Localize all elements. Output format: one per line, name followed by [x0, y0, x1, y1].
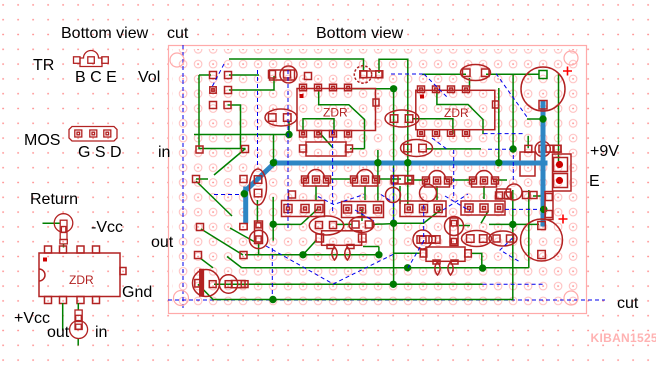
mounting hole top-left	[170, 53, 184, 67]
svg-text:TR: TR	[33, 57, 54, 74]
mounting hole bottom-left	[174, 291, 189, 306]
outline dash right diag	[496, 74, 527, 118]
outline dash diag mid	[432, 138, 448, 150]
pad block under bus	[520, 152, 535, 176]
svg-text:out: out	[47, 324, 70, 341]
op-amp U2 pin1 mark	[420, 95, 424, 99]
mounting hole top-right	[564, 51, 578, 65]
outline dash v3	[332, 130, 334, 211]
wire jumper row1b	[229, 74, 259, 76]
wire left ladder vertical	[199, 75, 246, 149]
wire diag left2b	[201, 229, 243, 255]
junction dot right v4 end	[495, 159, 502, 166]
capacitor C1 top pad (green)	[539, 71, 547, 79]
transistor Q9 small ellipse	[309, 216, 343, 235]
wire ra1 diag	[301, 209, 318, 224]
diode D1 bar	[200, 270, 204, 297]
junction dot on bus	[374, 159, 381, 166]
resistor R1 top-right ellipse	[461, 65, 491, 81]
wire ic2 inner1	[437, 91, 483, 135]
cut line left vertical	[182, 45, 184, 310]
transistor Q12 ellipse	[489, 231, 517, 246]
svg-text:G S D: G S D	[78, 144, 122, 161]
wire bottom h1 tap	[378, 247, 380, 255]
wire bus tap right	[527, 118, 543, 120]
wire long vertical A	[393, 89, 395, 223]
op-amp U1 pin1 mark	[300, 94, 304, 98]
outline dash v7	[271, 248, 273, 296]
pad	[197, 224, 204, 231]
wire L2 left feed	[394, 252, 421, 254]
op-amp U2 side tab	[493, 101, 499, 108]
resistor array RA4	[461, 201, 505, 215]
trimmer VR2	[450, 218, 458, 246]
op-amp U1 pins bottom	[300, 131, 352, 138]
outline dash X1	[443, 194, 468, 210]
capacitor C3 pads top-left	[270, 70, 295, 80]
wire block top feed	[527, 136, 529, 148]
pad	[242, 146, 249, 153]
legend trimmer wire	[43, 222, 61, 224]
outline dash diag mid2	[355, 210, 374, 221]
solder circle a	[386, 188, 401, 203]
svg-text:in: in	[158, 144, 170, 161]
outline dash diag ic2	[424, 74, 447, 97]
resistor array RA3	[400, 201, 446, 217]
wire right v1b	[512, 190, 514, 224]
transistor Q11 ellipse	[462, 231, 492, 247]
junction dot	[390, 220, 397, 227]
wire power bus horizontal (thick)	[275, 161, 545, 166]
capacitor C1 electrolytic top	[521, 67, 565, 111]
wire right v3	[528, 190, 530, 268]
junction dot L2	[479, 264, 486, 271]
wire q9q10 link	[337, 223, 353, 225]
wire L2 right feed	[471, 253, 482, 268]
wire tr row link3	[409, 179, 425, 181]
wire diode drop	[198, 284, 213, 299]
legend in jack	[70, 310, 88, 339]
svg-text:in: in	[95, 324, 107, 341]
pad	[289, 191, 296, 198]
connector J1 pin2	[556, 177, 563, 184]
wire ic1 inner	[319, 91, 365, 149]
jumper pads left top	[210, 72, 217, 79]
wire tr row link5	[496, 179, 507, 181]
svg-text:Return: Return	[30, 191, 78, 208]
capacitor C4 pads top-mid	[361, 71, 383, 78]
pad	[196, 146, 203, 153]
pad	[195, 252, 202, 259]
svg-text:E: E	[589, 173, 600, 190]
svg-text:+9V: +9V	[590, 143, 619, 160]
outline dash diag bot	[408, 241, 424, 268]
wire vr drop2	[258, 243, 260, 255]
transistor Q7 dome	[472, 171, 497, 187]
wire ellipse pin drop	[469, 78, 471, 88]
resistor R3 horizontal	[306, 142, 346, 156]
wire jumper column	[228, 105, 241, 149]
transistor Q1 ellipse	[265, 109, 297, 126]
transistor Q2 ellipse	[385, 110, 419, 127]
legend TR symbol	[74, 51, 109, 67]
wire q feed	[273, 135, 275, 161]
wire tr2 drop	[364, 186, 366, 200]
wire power bus diagonal (thick)	[246, 162, 276, 191]
outline dash v1	[257, 70, 259, 168]
outline dash top h	[391, 73, 424, 75]
outline dash v6	[453, 150, 455, 199]
inductor L2 leads	[435, 262, 440, 275]
connector J1 pin1	[556, 161, 563, 168]
transistor Q3 dome	[304, 170, 329, 187]
wire diag left1	[196, 181, 232, 216]
svg-text:MOS: MOS	[24, 132, 60, 149]
resistor R6 vertical right	[545, 192, 553, 220]
wire bottom h4	[212, 299, 514, 301]
legend IC U3 body	[39, 246, 126, 304]
wire ladder diag	[214, 149, 246, 176]
wire tr1 drop	[315, 186, 317, 200]
op-amp U2 body	[416, 90, 495, 129]
op-amp U2 pins bottom	[418, 130, 470, 137]
wire cap right drop	[558, 74, 560, 161]
outline dash diag mid3	[381, 195, 391, 202]
wire right v1	[512, 74, 514, 149]
wire ic1 feed	[194, 134, 289, 136]
legend trimmer VR	[54, 214, 73, 244]
wire ellipse left feed	[422, 73, 466, 75]
wire r mid diag	[318, 131, 333, 148]
pad	[305, 73, 312, 80]
wire bottom h2	[242, 267, 529, 269]
wire assembly link2	[363, 246, 379, 248]
diode D1 circle	[193, 270, 220, 297]
wire bottom h3	[214, 283, 483, 285]
legend MOS symbol	[69, 127, 117, 142]
capacitor C5 small rect	[413, 230, 432, 249]
solder circle b	[420, 185, 437, 202]
wire tr5 drop	[483, 186, 485, 199]
op-amp U2 pins top	[418, 86, 470, 93]
wire power bus left vertical (thick)	[243, 189, 248, 221]
outline dash right h2	[488, 148, 511, 150]
board outline	[169, 46, 587, 314]
wire tr row link1	[330, 178, 351, 180]
inductor L1 leads	[332, 247, 337, 260]
transistor Q10 ellipse	[349, 217, 374, 233]
outline dash right h1	[484, 133, 525, 135]
svg-text:Bottom view: Bottom view	[61, 25, 149, 42]
wire ellipse link	[486, 73, 539, 75]
svg-text:out: out	[151, 234, 174, 251]
svg-text:-Vcc: -Vcc	[91, 219, 123, 236]
legend in wire b	[77, 339, 79, 346]
resistor array RA2	[342, 202, 384, 218]
capacitor C2 polarity mark	[559, 215, 568, 224]
outline dash v5	[423, 205, 425, 241]
wire r mid out	[350, 148, 365, 150]
wire tr4 drop	[436, 186, 438, 200]
pad	[240, 176, 247, 183]
outline dash v8	[512, 155, 514, 182]
outline dash h mid right	[505, 208, 541, 210]
junction dot	[299, 251, 306, 258]
wire ic link	[350, 88, 394, 90]
outline dash v4	[392, 168, 394, 220]
svg-text:ZDR: ZDR	[444, 106, 469, 120]
junction dot bus elbow	[241, 190, 248, 197]
wire right v4	[498, 88, 500, 163]
junction dot	[270, 159, 277, 166]
wire q1 stub	[288, 121, 290, 135]
svg-text:KIBAN1525: KIBAN1525	[591, 331, 656, 345]
resistor R2 mid ellipse	[401, 140, 433, 157]
legend IC U3 pin1 mark	[43, 258, 47, 262]
svg-text:Bottom view: Bottom view	[316, 25, 404, 42]
trimmer VR1	[255, 221, 263, 244]
svg-text:B C E: B C E	[75, 69, 117, 86]
inductor L2 body	[426, 247, 465, 261]
wire long vertical A low	[393, 223, 395, 284]
junction dot cap feed	[539, 115, 546, 122]
wire top bus	[229, 59, 364, 71]
junction dot right v1 end	[509, 145, 516, 152]
junction dot	[390, 85, 397, 92]
wire bus tap	[377, 150, 379, 201]
transistor Q8 circle	[506, 184, 522, 200]
pad	[240, 224, 247, 230]
wire r2 out	[426, 148, 481, 150]
resistor R8 under bus	[539, 145, 561, 152]
svg-text:ZDR: ZDR	[323, 106, 348, 120]
op-amp U1 side tab	[373, 99, 379, 106]
legend trimmer drop	[63, 244, 65, 248]
pin holes in arrays	[287, 207, 501, 211]
mounting hole bottom-right	[564, 291, 578, 305]
outline dash h3 continuation	[483, 283, 543, 285]
wire diag left3	[227, 257, 242, 269]
svg-text:+Vcc: +Vcc	[14, 310, 50, 327]
wire vr drop	[256, 200, 258, 222]
outline dash h mid left	[214, 194, 240, 196]
transistor Q6 dome	[425, 171, 450, 187]
svg-text:ZDR: ZDR	[69, 273, 94, 287]
wire bottom h1	[245, 254, 379, 256]
svg-text:cut: cut	[617, 295, 639, 312]
outline dash X2	[445, 196, 470, 211]
junction dot	[509, 221, 516, 228]
wire assembly link	[273, 223, 301, 225]
outline dash big V	[266, 246, 393, 284]
legend in wire	[77, 303, 79, 311]
outline dash V mid	[318, 195, 364, 205]
junction dot on bus right	[540, 206, 547, 213]
wire jumper row2	[229, 76, 274, 90]
op-amp U1 body	[297, 89, 376, 131]
wire between ICs	[379, 59, 408, 204]
capacitor C1 polarity mark	[563, 67, 572, 76]
wire mid low tap	[272, 197, 274, 241]
wire L1 left diag	[303, 240, 317, 255]
wire tr row link2	[379, 178, 401, 180]
wire right mid bus	[489, 223, 539, 225]
junction dot	[374, 159, 381, 166]
outline dash diag tl	[212, 64, 224, 87]
junction dot	[285, 131, 292, 138]
cut line bottom horizontal	[168, 299, 605, 301]
junction dot	[404, 264, 411, 271]
transistor Q4 dome	[353, 170, 378, 187]
resistor R7 row	[392, 176, 414, 185]
junction dot	[270, 221, 277, 228]
op-amp U1 pins top	[300, 84, 352, 91]
wire pad link left	[196, 178, 208, 180]
wire block2 diag	[481, 210, 489, 223]
wire power bus right vertical (thick)	[541, 103, 546, 224]
diode D1 pad	[195, 280, 203, 288]
wire block1 out	[396, 210, 441, 224]
legend out wire	[62, 303, 64, 331]
svg-text:Vol: Vol	[138, 69, 160, 86]
junction dot on bus	[270, 159, 277, 166]
pad	[193, 176, 200, 183]
pads right of Q8	[523, 192, 530, 199]
wire ra3 drop	[399, 186, 401, 204]
resistor array RA1	[282, 201, 325, 217]
pad	[240, 252, 247, 259]
junction dot	[390, 281, 397, 288]
svg-text:Gnd: Gnd	[122, 284, 152, 301]
junction dot on bus	[404, 159, 411, 166]
junction dot	[269, 296, 276, 303]
wire ic1 inner b	[303, 119, 334, 131]
junction dot	[375, 251, 382, 258]
wire pot2 link	[459, 225, 470, 227]
wire ic2 inner2	[412, 119, 453, 134]
wire jumper row1	[199, 74, 211, 76]
wire assembly link b	[372, 223, 394, 226]
wire vr diag	[230, 228, 254, 242]
outline dash diag br	[500, 238, 520, 262]
junction dot	[404, 159, 411, 166]
wire tr row link4	[451, 179, 471, 181]
wire diag left2	[200, 258, 213, 268]
inductor L1 body	[322, 231, 362, 246]
connector J1	[553, 154, 572, 191]
resistor R4 vertical ellipse	[250, 169, 267, 205]
wire conn link	[533, 195, 545, 197]
wire ra2 drop	[361, 209, 363, 221]
junction dot	[540, 206, 547, 213]
resistor R5 w circle	[219, 275, 237, 293]
svg-text:cut: cut	[167, 25, 189, 42]
capacitor C2 electrolytic bottom	[521, 219, 563, 261]
wire right v2	[512, 224, 514, 299]
outline dash v2	[287, 70, 289, 230]
